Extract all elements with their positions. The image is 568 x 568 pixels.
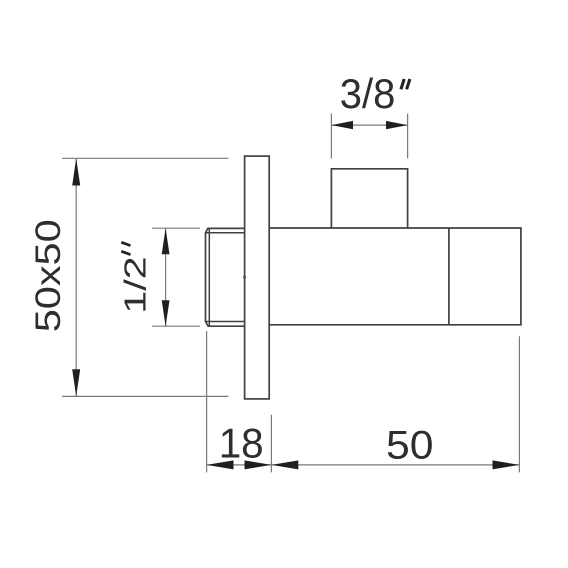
dimension 18/50: extension line middle (270, 415, 272, 473)
dimension 50: arrow right (493, 460, 520, 469)
hex nut silhouette (206, 228, 245, 326)
dimension 50x50: extension line bottom (62, 395, 228, 397)
dimension 50: arrow left (271, 460, 298, 469)
valve body inner edge line (448, 228, 450, 325)
dimension 3/8: dimension line (331, 124, 407, 126)
hex nut facet line top (206, 232, 245, 234)
dimension 1/2: arrow down (162, 300, 170, 326)
svg-text:50x50: 50x50 (29, 219, 68, 332)
dimension 18/50: extension line left (206, 331, 208, 472)
dimension 3/8: arrow right (386, 121, 408, 129)
dimension 1/2: extension line bottom (152, 325, 200, 327)
dimension 18: arrow right (245, 460, 272, 469)
hex nut facet line vertical (208, 229, 210, 326)
label 1/2" with prime marks (117, 242, 152, 314)
dimension 3/8: extension line left (330, 114, 332, 159)
wall flange plate (245, 156, 270, 399)
top outlet connector 3/8 (331, 169, 407, 228)
hex nut facet line bottom (206, 321, 245, 323)
dimension 1/2: arrow up (162, 228, 170, 254)
dimension 50x50: arrow up (72, 158, 80, 185)
dimension 50x50: dimension line (75, 158, 77, 396)
dimension 1/2: extension line top (152, 227, 200, 229)
dimension 18/50: dimension line (207, 464, 520, 466)
dimension 1/2: dimension line (165, 228, 167, 326)
svg-text:50: 50 (386, 423, 434, 467)
small mark on flange edge (243, 276, 246, 279)
svg-text:18: 18 (219, 420, 264, 467)
dimension 18: arrow left (207, 460, 234, 469)
dimension 50x50: extension line top (62, 157, 229, 159)
dimension 18/50: extension line right (518, 336, 520, 472)
svg-text:3/8: 3/8 (340, 70, 396, 117)
dimension 3/8: extension line right (407, 114, 409, 159)
valve body outline (269, 228, 521, 325)
dimension 3/8: arrow left (331, 121, 353, 129)
dimension 50x50: arrow down (72, 369, 80, 396)
svg-text:1/2: 1/2 (117, 256, 152, 314)
